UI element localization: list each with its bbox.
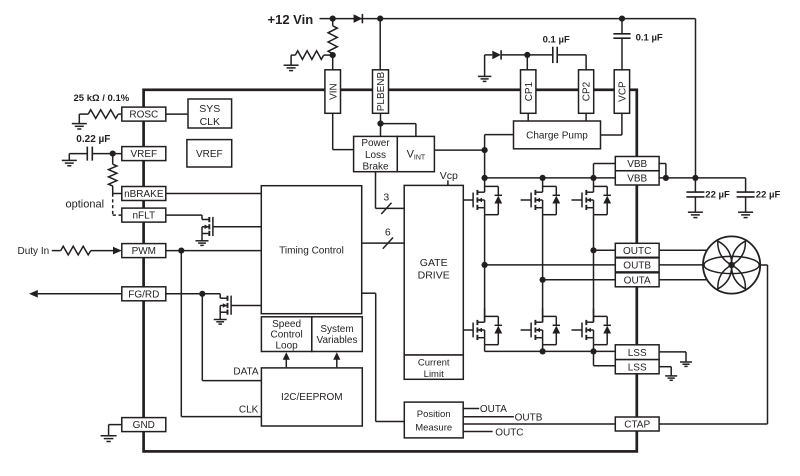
wire PLBENB down bbox=[380, 113, 382, 136]
ground for LSS top bbox=[680, 362, 692, 366]
svg-text:0.22 µF: 0.22 µF bbox=[76, 134, 110, 145]
svg-text:3: 3 bbox=[383, 192, 389, 204]
pin box CP1 bbox=[521, 70, 536, 114]
block VREF bbox=[187, 140, 232, 167]
wire PM OUTB stub bbox=[463, 416, 514, 418]
junction dot rail C bbox=[590, 175, 596, 181]
block VINT bbox=[397, 136, 434, 171]
wire diode to CP1 cap bbox=[501, 54, 553, 56]
junction dot PWM/CLK bbox=[178, 248, 184, 254]
wire Vcp stub bbox=[447, 180, 449, 186]
svg-text:OUTC: OUTC bbox=[495, 427, 523, 438]
ground for CP diode bbox=[478, 76, 492, 81]
pin box LSS #5 bbox=[615, 345, 659, 360]
svg-text:Control: Control bbox=[270, 330, 302, 341]
wire VINT to VBB node bbox=[434, 149, 484, 151]
label CLK bbox=[239, 405, 259, 416]
arrow I2C to System Variables bbox=[333, 352, 340, 367]
pin box OUTB #3 bbox=[615, 258, 659, 272]
wire VCP cap bottom bbox=[621, 38, 623, 69]
wire VBB drain rail bbox=[485, 177, 616, 179]
junction dot rail B bbox=[540, 175, 546, 181]
transistor Q2 FG/RD bbox=[214, 294, 262, 324]
resistor R5 Duty In bbox=[52, 246, 113, 255]
svg-text:VBB: VBB bbox=[627, 174, 647, 185]
ground for R2 bbox=[284, 65, 299, 70]
junction dot PLBENB node bbox=[377, 121, 383, 127]
svg-text:System: System bbox=[320, 324, 353, 335]
svg-text:+12 Vin: +12 Vin bbox=[268, 12, 314, 27]
svg-text:OUTC: OUTC bbox=[623, 246, 651, 257]
arrow into PWM bbox=[113, 247, 122, 255]
pin box ROSC bbox=[122, 107, 166, 121]
svg-text:FG/RD: FG/RD bbox=[128, 289, 159, 300]
capacitor C3 22uF bbox=[686, 178, 704, 212]
ground for LSS bottom bbox=[665, 376, 677, 380]
wire nBRAKE to Timing Control bbox=[166, 193, 261, 195]
svg-text:CLK: CLK bbox=[200, 116, 220, 128]
block Charge Pump bbox=[514, 121, 601, 149]
svg-text:25 kΩ / 0.1%: 25 kΩ / 0.1% bbox=[74, 93, 130, 104]
pin box LSS #6 bbox=[615, 360, 659, 374]
pin box PLBENB bbox=[373, 70, 389, 114]
svg-text:Measure: Measure bbox=[415, 422, 452, 433]
svg-text:GATE: GATE bbox=[420, 257, 448, 269]
svg-text:DRIVE: DRIVE bbox=[418, 269, 450, 281]
svg-text:DATA: DATA bbox=[233, 367, 259, 378]
bus slash 6 bbox=[383, 238, 393, 249]
svg-text:Loss: Loss bbox=[365, 150, 386, 161]
label Duty In bbox=[18, 246, 50, 257]
diode D1 bbox=[354, 14, 363, 23]
svg-text:LSS: LSS bbox=[628, 348, 647, 359]
wire PM OUTA stub bbox=[463, 408, 479, 410]
junction dot +12Vin/R1 bbox=[330, 16, 336, 22]
block Power Loss Brake bbox=[354, 136, 398, 172]
block System Variables bbox=[312, 317, 363, 352]
junction dot source rail B bbox=[540, 348, 546, 354]
svg-text:0.1 µF: 0.1 µF bbox=[636, 33, 663, 44]
svg-text:LSS: LSS bbox=[628, 362, 647, 373]
ground for ROSC resistor bbox=[72, 124, 87, 129]
wire OUTC line bbox=[594, 249, 616, 251]
wire OUTA to motor bbox=[659, 279, 710, 281]
svg-text:OUTA: OUTA bbox=[480, 404, 507, 415]
svg-text:PLBENB: PLBENB bbox=[376, 71, 387, 111]
block GATE DRIVE bbox=[404, 185, 463, 355]
svg-text:nBRAKE: nBRAKE bbox=[124, 189, 164, 200]
junction dot FG/RD/DATA bbox=[199, 291, 205, 297]
block SYS CLK bbox=[188, 99, 232, 128]
diode D2 bbox=[492, 50, 501, 59]
junction dot source rail C bbox=[590, 348, 596, 354]
junction dot cap3 tap bbox=[692, 175, 698, 181]
svg-text:6: 6 bbox=[385, 226, 391, 238]
svg-text:Power: Power bbox=[361, 138, 390, 149]
arrow FG/RD out bbox=[29, 290, 38, 298]
svg-text:CTAP: CTAP bbox=[624, 420, 650, 431]
junction dot OUTA bbox=[540, 277, 546, 283]
transistor QAH high-side A bbox=[463, 178, 502, 214]
wire VIN to Power Loss Brake bbox=[333, 113, 354, 149]
wire PM OUTC stub bbox=[463, 431, 492, 433]
junction dot CP1 node bbox=[524, 52, 530, 58]
svg-text:VREF: VREF bbox=[196, 149, 223, 160]
wire LSS top to ground bbox=[659, 352, 686, 362]
svg-text:Speed: Speed bbox=[272, 319, 301, 330]
pin box VREF bbox=[122, 147, 166, 161]
svg-text:optional: optional bbox=[66, 198, 105, 210]
pin box VBB #1 bbox=[615, 171, 659, 185]
svg-text:Variables: Variables bbox=[317, 335, 358, 346]
svg-text:GND: GND bbox=[133, 420, 155, 431]
block Position Measure bbox=[404, 402, 463, 438]
pin box OUTA #4 bbox=[615, 273, 659, 287]
svg-text:SYS: SYS bbox=[199, 103, 220, 115]
resistor R2 horizontal bbox=[291, 51, 333, 65]
svg-text:VIN: VIN bbox=[328, 83, 339, 100]
wire VBB right jog bbox=[659, 164, 666, 178]
wire PLBENB to VINT bbox=[381, 124, 416, 137]
svg-text:22 µF: 22 µF bbox=[756, 189, 781, 200]
wire OUTC to motor bbox=[659, 249, 710, 251]
svg-text:VCP: VCP bbox=[618, 81, 629, 102]
svg-text:ROSC: ROSC bbox=[129, 110, 158, 121]
pin box PWM bbox=[122, 244, 166, 258]
wire DATA bbox=[202, 294, 261, 381]
label 25 kOhm bbox=[74, 93, 130, 104]
wire CTAP to motor bbox=[659, 265, 767, 424]
junction dot diode out bbox=[377, 16, 383, 22]
pin box FG/RD bbox=[122, 287, 166, 301]
pin box CTAP #7 bbox=[615, 417, 659, 431]
label C4 22uF bbox=[756, 189, 781, 200]
pin box VBB #0 bbox=[615, 157, 659, 171]
wire source rail bbox=[485, 345, 616, 352]
capacitor C2 0.1uF plates bbox=[613, 34, 630, 38]
arrow I2C to Speed Control Loop bbox=[283, 352, 290, 367]
wire to PLBENB pin bbox=[379, 19, 381, 70]
wire +12Vin to junction bbox=[320, 18, 333, 20]
pin box nBRAKE bbox=[122, 187, 166, 201]
wire cap to CP2 pin bbox=[557, 55, 586, 70]
junction dot OUTB bbox=[482, 262, 488, 268]
pin box VCP bbox=[614, 70, 629, 114]
svg-text:CP2: CP2 bbox=[582, 81, 593, 101]
wire CP diode branch bbox=[485, 55, 493, 77]
junction dot C5/R4 bbox=[110, 151, 116, 157]
IC chip outline U1 bbox=[144, 90, 637, 452]
label C3 22uF bbox=[705, 189, 730, 200]
svg-text:VREF: VREF bbox=[130, 149, 157, 160]
label 6 bbox=[385, 226, 391, 238]
svg-text:PWM: PWM bbox=[132, 246, 156, 257]
label 0.22uF bbox=[76, 134, 110, 145]
label net OUTB bbox=[515, 413, 543, 424]
svg-text:22 µF: 22 µF bbox=[705, 189, 730, 200]
wire PM to CTAP bbox=[463, 423, 615, 425]
junction dot rail A bbox=[482, 175, 488, 181]
wire nFLT to Q1 bbox=[166, 214, 202, 216]
ground for C4 bbox=[738, 212, 753, 217]
transistor QCL low-side C bbox=[572, 308, 612, 344]
wire junction to CP1 pin bbox=[526, 55, 528, 70]
resistor R3 ROSC bbox=[79, 110, 122, 124]
ground for GND pin bbox=[101, 436, 117, 442]
wire phase column C bbox=[593, 215, 595, 323]
wire VBB to caps bbox=[659, 178, 746, 192]
label 3 bbox=[383, 192, 389, 204]
wire C5 to VREF pin bbox=[92, 153, 122, 155]
junction dot VBB jog bbox=[663, 175, 669, 181]
svg-text:VBB: VBB bbox=[627, 159, 647, 170]
wire gnd to cap C5 bbox=[69, 154, 87, 161]
label net OUTA bbox=[480, 404, 507, 415]
bus 6 Timing Control to Gate Drive bbox=[362, 242, 405, 244]
transistor QBH high-side B bbox=[521, 178, 561, 214]
junction dot VINT node bbox=[482, 147, 488, 153]
wire PWM to Timing Control bbox=[166, 250, 261, 252]
wire OUTA line bbox=[543, 279, 616, 281]
svg-text:CLK: CLK bbox=[239, 405, 259, 416]
block I2C/EEPROM bbox=[261, 368, 362, 426]
wire Timing Control to Position Measure bbox=[362, 293, 405, 421]
label C1 0.1uF bbox=[543, 35, 570, 46]
wire phase column A bbox=[484, 215, 486, 323]
label C2 0.1uF bbox=[636, 33, 663, 44]
capacitor C4 22uF bbox=[737, 192, 755, 212]
wire CP2 to Charge Pump bbox=[585, 113, 587, 121]
wire top supply bus bbox=[333, 19, 696, 178]
transistor QBL low-side B bbox=[521, 308, 561, 344]
pin box CP2 bbox=[579, 70, 594, 114]
resistor R4 optional pullup bbox=[109, 154, 122, 194]
svg-text:Current: Current bbox=[418, 358, 450, 369]
svg-text:Charge Pump: Charge Pump bbox=[526, 131, 588, 142]
wire FG/RD to Q2 bbox=[166, 293, 220, 295]
label net OUTC bbox=[495, 427, 523, 438]
capacitor C5 plates bbox=[87, 147, 92, 161]
pin box OUTC #2 bbox=[615, 243, 659, 257]
wire VCP to Charge Pump bbox=[601, 113, 622, 135]
svg-text:Timing Control: Timing Control bbox=[279, 245, 344, 256]
svg-text:Duty In: Duty In bbox=[18, 246, 50, 257]
wire OUTB to motor bbox=[659, 264, 706, 266]
wire CLK bbox=[181, 251, 261, 417]
wire dashed optional to nFLT bbox=[113, 194, 122, 216]
svg-text:Limit: Limit bbox=[424, 369, 444, 380]
svg-text:OUTB: OUTB bbox=[623, 261, 651, 272]
node +12 Vin label bbox=[268, 12, 314, 27]
wire node to Charge Pump bbox=[485, 135, 514, 151]
wire CP1 to Charge Pump bbox=[527, 113, 529, 121]
pin box VIN bbox=[325, 70, 341, 114]
svg-text:OUTB: OUTB bbox=[515, 413, 543, 424]
ground for C3 bbox=[688, 212, 703, 217]
transistor QAL low-side A bbox=[463, 308, 502, 344]
svg-text:nFLT: nFLT bbox=[132, 211, 155, 222]
capacitor C1 0.1uF plates bbox=[553, 47, 557, 63]
transistor QCH high-side C bbox=[572, 178, 612, 214]
wire ROSC to SYS CLK bbox=[166, 113, 188, 115]
wire FG/RD output arrow bbox=[38, 293, 122, 295]
block Timing Control bbox=[261, 186, 361, 314]
wire GND pin to ground bbox=[109, 425, 122, 436]
wire OUTB line bbox=[485, 264, 616, 266]
ground for C5 bbox=[62, 160, 77, 165]
wire LSS bottom to ground bbox=[659, 367, 671, 376]
junction dot OUTC bbox=[590, 247, 596, 253]
wire node down to rail bbox=[484, 150, 486, 178]
wire phase column B bbox=[542, 215, 544, 323]
junction dot VCP cap bbox=[619, 16, 625, 22]
label Vcp bbox=[440, 170, 458, 182]
block Current Limit bbox=[404, 355, 463, 380]
resistor R1 vertical bbox=[328, 19, 337, 56]
bus 3 Power Loss Brake to Gate Drive bbox=[376, 172, 405, 209]
wire to LSS bottom pin bbox=[594, 351, 616, 365]
bus slash 3 bbox=[381, 203, 391, 214]
transistor Q1 nFLT bbox=[196, 215, 262, 245]
svg-text:Position: Position bbox=[417, 409, 451, 420]
block Speed Control Loop bbox=[261, 317, 311, 352]
svg-text:Brake: Brake bbox=[362, 161, 389, 172]
svg-text:0.1 µF: 0.1 µF bbox=[543, 35, 570, 46]
wire VCP cap top bbox=[621, 19, 623, 34]
wire junction to VIN pin bbox=[332, 55, 334, 70]
junction dot R1/R2 bbox=[330, 52, 336, 58]
svg-text:Loop: Loop bbox=[275, 340, 298, 351]
pin box GND bbox=[122, 418, 166, 432]
pin box nFLT bbox=[122, 208, 166, 222]
label optional bbox=[66, 198, 105, 210]
svg-text:Vcp: Vcp bbox=[440, 170, 458, 182]
svg-text:I2C/EEPROM: I2C/EEPROM bbox=[281, 392, 343, 403]
wire rail to VBB top pin bbox=[594, 164, 616, 178]
label DATA bbox=[233, 367, 259, 378]
motor M1 fan bbox=[703, 236, 760, 293]
svg-text:OUTA: OUTA bbox=[624, 275, 651, 286]
svg-text:CP1: CP1 bbox=[524, 81, 535, 101]
